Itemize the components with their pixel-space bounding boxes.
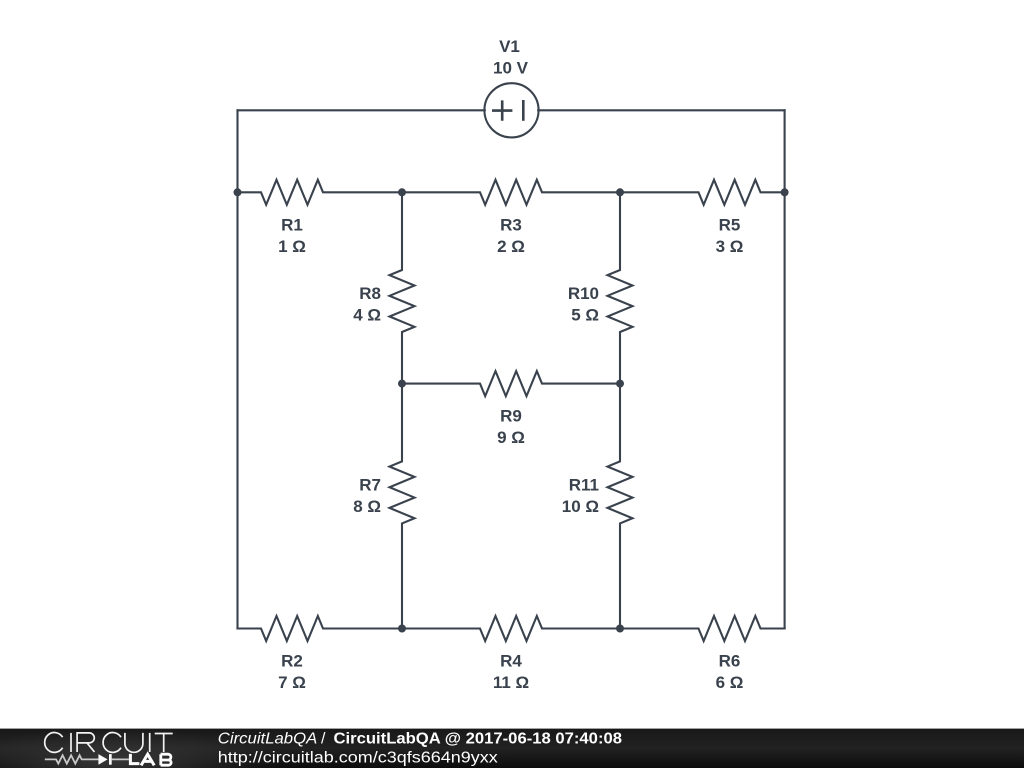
node dot bottom col2 xyxy=(398,625,406,633)
logo diode triangle xyxy=(98,754,107,765)
node dot mid col2 xyxy=(398,380,406,388)
voltage source V1 circle xyxy=(484,83,538,137)
logo letter L of LAB xyxy=(130,754,139,764)
logo letter C1 xyxy=(45,733,63,753)
logo diode lead wire xyxy=(112,758,129,760)
logo letter I1 xyxy=(70,733,72,752)
resistor R2 xyxy=(238,616,403,641)
V1 plus symbol xyxy=(493,102,511,120)
node dot row1 right xyxy=(781,188,789,196)
node dot row1 col2 xyxy=(398,188,406,196)
svg-text:R5: R5 xyxy=(719,215,741,234)
node dot mid col3 xyxy=(616,380,624,388)
svg-text:R8: R8 xyxy=(359,284,381,303)
wire top left (node TL to V1 minus terminal) xyxy=(238,109,485,111)
logo letter T xyxy=(155,734,173,753)
resistor R10 xyxy=(608,192,633,383)
svg-text:5 Ω: 5 Ω xyxy=(571,305,599,324)
svg-text:R6: R6 xyxy=(719,652,741,671)
svg-text:V1: V1 xyxy=(499,37,520,56)
svg-text:CircuitLabQA: CircuitLabQA xyxy=(218,730,317,747)
svg-text:9 Ω: 9 Ω xyxy=(497,428,525,447)
V1 minus symbol xyxy=(522,101,525,119)
resistor R1 xyxy=(238,180,403,205)
wire top right (V1 plus terminal to node TR) xyxy=(538,109,784,111)
svg-text:R7: R7 xyxy=(359,476,381,495)
resistor R5 xyxy=(620,180,785,205)
logo letter U xyxy=(125,733,143,752)
svg-text:R11: R11 xyxy=(569,476,599,495)
logo letter C2 xyxy=(103,733,121,753)
svg-text:6 Ω: 6 Ω xyxy=(716,673,744,692)
logo letter B of LAB xyxy=(161,754,172,765)
svg-text:R10: R10 xyxy=(568,284,599,303)
svg-text:1 Ω: 1 Ω xyxy=(278,237,306,256)
resistor R9 xyxy=(402,371,620,396)
svg-text:CircuitLabQA @ 2017-06-18 07:4: CircuitLabQA @ 2017-06-18 07:40:08 xyxy=(334,730,623,747)
svg-text:10 V: 10 V xyxy=(493,59,529,78)
logo resistor zigzag xyxy=(45,755,99,763)
node dot row1 col3 xyxy=(616,188,624,196)
wire left vertical branch xyxy=(236,110,238,628)
logo letter A of LAB xyxy=(141,754,154,765)
svg-text:R2: R2 xyxy=(281,652,303,671)
resistor R4 xyxy=(402,616,620,641)
resistor R8 xyxy=(390,192,415,383)
node dot row1 left xyxy=(234,188,242,196)
footer bar glow behind logo xyxy=(0,728,287,768)
logo letter R xyxy=(77,733,94,752)
resistor R7 xyxy=(390,384,415,629)
node dot bottom col3 xyxy=(616,625,624,633)
svg-text:R4: R4 xyxy=(500,652,522,671)
wire right vertical branch xyxy=(784,110,786,628)
resistor R11 xyxy=(608,384,633,629)
footer black bar xyxy=(0,729,1024,768)
svg-text:/: / xyxy=(321,730,326,747)
resistor R3 xyxy=(402,180,620,205)
svg-text:3 Ω: 3 Ω xyxy=(716,237,744,256)
svg-text:http://circuitlab.com/c3qfs664: http://circuitlab.com/c3qfs664n9yxx xyxy=(218,749,498,766)
svg-text:10 Ω: 10 Ω xyxy=(562,497,599,516)
logo diode cathode bar xyxy=(109,754,112,765)
svg-text:11 Ω: 11 Ω xyxy=(493,673,529,692)
svg-text:R9: R9 xyxy=(500,407,522,426)
svg-text:R1: R1 xyxy=(281,215,303,234)
svg-text:2 Ω: 2 Ω xyxy=(497,237,525,256)
svg-text:8 Ω: 8 Ω xyxy=(353,497,381,516)
logo letter I2 xyxy=(149,733,151,752)
svg-text:R3: R3 xyxy=(500,215,522,234)
resistor R6 xyxy=(620,616,785,641)
svg-text:7 Ω: 7 Ω xyxy=(278,673,306,692)
svg-text:4 Ω: 4 Ω xyxy=(353,305,381,324)
